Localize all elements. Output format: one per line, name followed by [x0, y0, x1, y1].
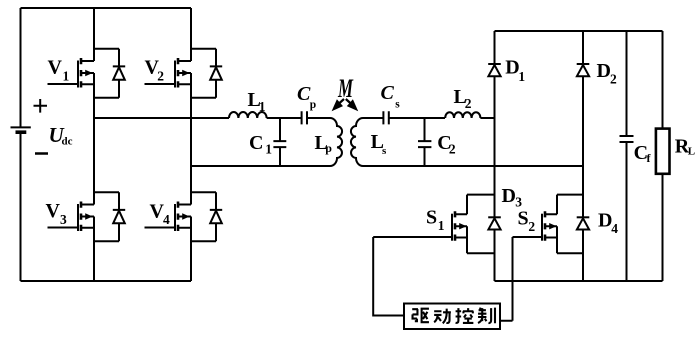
drive control box: [404, 304, 500, 330]
wire bottom rail: [21, 280, 192, 282]
battery Udc long plate: [11, 126, 31, 128]
label Lp: [315, 132, 333, 155]
label D1: [505, 57, 525, 84]
label Cs: [381, 82, 401, 110]
label Cf: [634, 142, 652, 165]
wire leg1 segments: [93, 8, 95, 281]
svg-text:L: L: [688, 146, 695, 158]
svg-text:3: 3: [60, 212, 67, 227]
wire left rail top: [20, 8, 22, 127]
wire leg2 segments: [190, 8, 192, 281]
diode D3: [488, 217, 501, 229]
svg-text:S: S: [426, 207, 437, 229]
battery minus sign: [35, 152, 48, 155]
wire S1 gate to control: [373, 237, 404, 316]
wire top rail: [21, 7, 192, 9]
transistor S1: [373, 195, 494, 254]
diode D1: [488, 64, 501, 76]
wire L1 to Cp: [267, 117, 302, 119]
diode D4: [577, 217, 590, 229]
wire phase A: [94, 117, 229, 119]
label S1: [426, 207, 445, 234]
label S2: [518, 208, 536, 234]
transistor S2: [513, 195, 584, 254]
svg-text:2: 2: [449, 142, 456, 157]
capacitor C1: [273, 118, 286, 166]
svg-text:C: C: [249, 132, 263, 154]
battery plus sign: [34, 99, 48, 113]
wire S2 gate to control: [500, 237, 513, 321]
inductor L1: [229, 112, 267, 118]
svg-text:dc: dc: [62, 136, 73, 148]
battery Udc short plate: [16, 130, 27, 134]
wire secondary bottom: [363, 165, 583, 167]
wire phase B bottom primary: [191, 165, 330, 167]
svg-text:1: 1: [265, 142, 272, 157]
label Udc: [49, 123, 73, 148]
svg-text:V: V: [46, 200, 61, 222]
svg-text:p: p: [325, 141, 332, 155]
transistor V4: [145, 202, 192, 232]
svg-text:1: 1: [63, 69, 70, 84]
wire rectifier bottom rail: [495, 280, 663, 282]
svg-text:S: S: [518, 208, 529, 230]
diode of V1: [94, 49, 125, 98]
svg-text:s: s: [395, 98, 400, 110]
inductor Ls secondary coil: [351, 118, 363, 166]
capacitor Cs: [383, 111, 388, 124]
arrow M left: [332, 99, 344, 111]
diode of V3: [94, 192, 125, 241]
svg-text:s: s: [382, 145, 387, 157]
arrow M right: [346, 99, 358, 111]
wire Cp to Lp: [308, 117, 331, 119]
svg-text:1: 1: [518, 69, 525, 84]
capacitor Cp: [302, 111, 307, 124]
label V4: [150, 200, 171, 227]
svg-text:p: p: [310, 99, 316, 111]
label D3: [502, 185, 523, 210]
transistor V2: [145, 58, 192, 88]
capacitor Cf: [620, 31, 634, 281]
svg-text:C: C: [381, 82, 395, 104]
label D2: [597, 60, 618, 87]
wire left rail bottom: [20, 132, 22, 281]
label V1: [48, 57, 70, 84]
svg-text:2: 2: [610, 72, 617, 87]
label Cp: [297, 83, 316, 111]
svg-text:1: 1: [259, 99, 266, 114]
svg-text:f: f: [647, 151, 652, 165]
inductor L2: [445, 112, 480, 118]
svg-text:1: 1: [438, 218, 445, 233]
resistor RL: [656, 31, 670, 281]
wire D1 leg segments: [494, 31, 496, 281]
diode D2: [577, 64, 590, 76]
wire rectifier top rail: [495, 30, 663, 32]
svg-text:D: D: [598, 209, 612, 231]
drive control text 驱动控制: [412, 308, 495, 324]
svg-text:V: V: [48, 57, 63, 79]
svg-text:4: 4: [611, 221, 618, 236]
svg-text:4: 4: [163, 212, 170, 227]
label L2: [454, 86, 472, 111]
svg-text:M: M: [337, 74, 353, 103]
svg-text:D: D: [597, 60, 611, 82]
svg-text:2: 2: [157, 68, 164, 83]
wire Cs to L2: [389, 117, 445, 119]
transistor V3: [48, 202, 95, 232]
label C2: [437, 132, 456, 157]
svg-text:D: D: [502, 185, 516, 207]
label RL: [675, 136, 695, 158]
inductor Lp primary coil: [330, 118, 342, 166]
label M mutual inductance: [337, 74, 353, 103]
transistor V1: [48, 58, 95, 88]
svg-text:2: 2: [465, 96, 472, 111]
diode of V2: [191, 49, 222, 98]
label C1: [249, 132, 272, 157]
label Ls: [371, 131, 387, 157]
capacitor C2: [418, 118, 431, 166]
wire L2 to rectifier: [480, 117, 494, 119]
label L1: [248, 89, 266, 114]
svg-text:2: 2: [528, 219, 535, 234]
label D4: [598, 209, 618, 235]
wire D2 leg segments: [582, 31, 584, 281]
diode of V4: [191, 192, 222, 241]
wire Ls to Cs: [363, 117, 383, 119]
label V3: [46, 200, 68, 227]
label V2: [145, 57, 165, 84]
